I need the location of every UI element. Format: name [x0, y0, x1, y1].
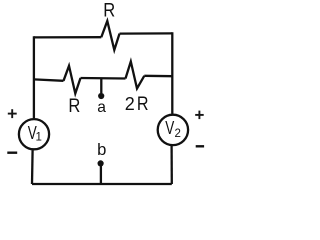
wire — [144, 75, 172, 78]
V1 minus sign — [7, 151, 17, 153]
wire — [33, 36, 35, 118]
svg-text:R: R — [137, 93, 149, 115]
voltage source V2 — [158, 115, 188, 145]
node a — [100, 78, 102, 93]
resistor R top — [101, 21, 119, 50]
wire — [32, 183, 172, 185]
node a junction dot — [98, 93, 104, 99]
wire — [34, 79, 64, 80]
resistor 2R — [126, 62, 145, 89]
V2 plus sign — [195, 111, 204, 120]
svg-text:a: a — [97, 99, 106, 116]
wire — [31, 150, 34, 184]
svg-text:R: R — [103, 0, 115, 21]
V2 minus sign — [196, 145, 204, 147]
svg-text:1: 1 — [36, 132, 42, 144]
wire — [120, 32, 173, 34]
svg-text:V: V — [165, 118, 174, 138]
wire — [171, 32, 173, 114]
node b junction dot — [98, 160, 104, 166]
svg-text:2: 2 — [175, 128, 181, 140]
svg-text:R: R — [68, 95, 80, 117]
svg-text:b: b — [97, 140, 106, 159]
svg-text:2: 2 — [125, 94, 135, 114]
wire — [34, 36, 101, 39]
wire — [81, 77, 126, 80]
resistor R middle — [64, 66, 81, 94]
voltage source V1 — [19, 119, 49, 149]
node b — [100, 166, 102, 184]
V1 plus sign — [8, 109, 17, 118]
wire — [170, 146, 172, 184]
